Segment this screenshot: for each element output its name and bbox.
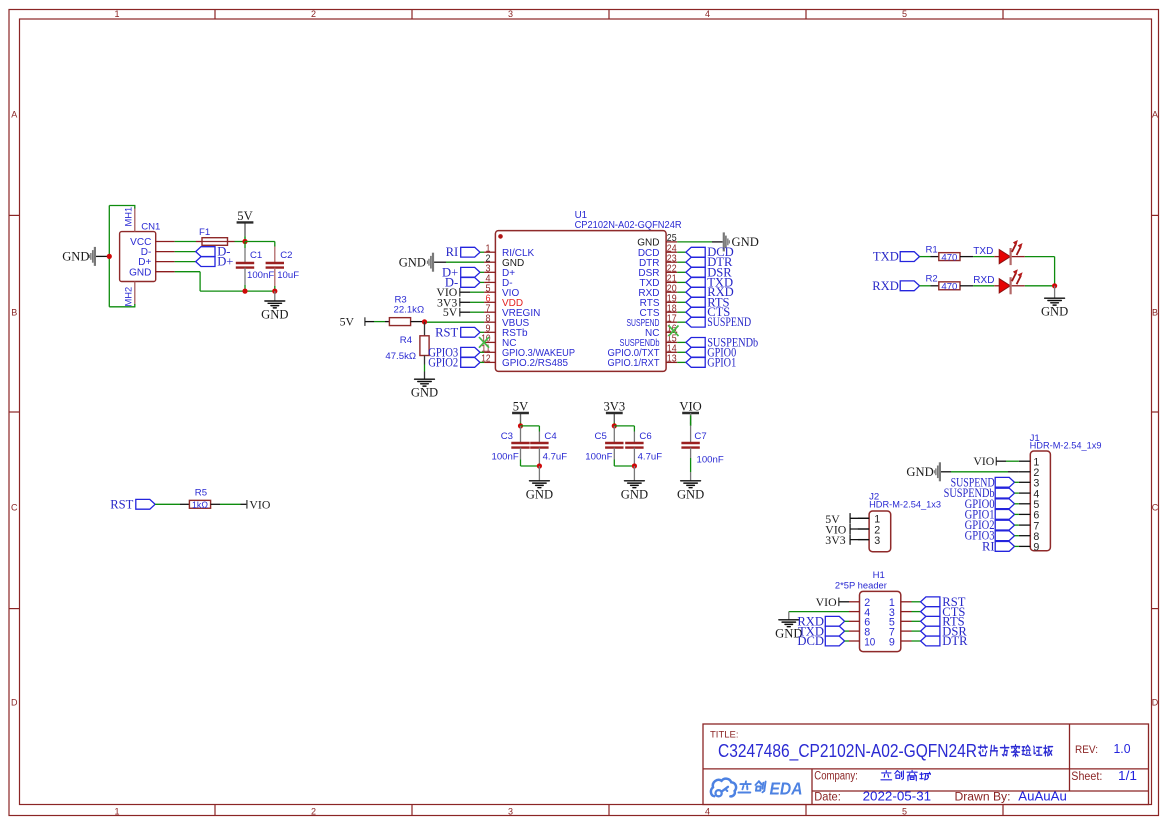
net label VIO at R5 <box>247 497 271 511</box>
svg-text:100nF: 100nF <box>491 451 518 462</box>
svg-text:3: 3 <box>508 9 513 19</box>
net flag TXD at H1 <box>798 624 849 638</box>
net flag DCD <box>677 245 734 259</box>
svg-text:REV:: REV: <box>1075 744 1098 756</box>
logo LCEDA <box>711 779 736 797</box>
svg-text:4: 4 <box>705 9 710 19</box>
svg-text:RST: RST <box>435 325 458 339</box>
net flag RXD at H1 <box>797 615 849 629</box>
power VIO at C7 <box>679 399 701 426</box>
junction LED GND <box>1052 283 1057 288</box>
svg-text:5: 5 <box>902 9 907 19</box>
net flag GPIO1 at J1 <box>965 507 1019 521</box>
svg-text:GPIO2: GPIO2 <box>428 355 458 369</box>
svg-text:MH2: MH2 <box>124 287 134 307</box>
junction C2 bottom <box>272 289 277 294</box>
wire C7 to GND <box>690 448 692 481</box>
wire LEDs to GND <box>1025 257 1055 286</box>
net flag RST at R5 <box>110 497 155 511</box>
net label VIO at J2 <box>825 523 869 537</box>
junction VBUS divider <box>422 319 427 324</box>
svg-text:HDR-M-2.54_1x9: HDR-M-2.54_1x9 <box>1030 441 1102 452</box>
wire VIO to C7 <box>690 413 692 443</box>
wire R3 to junction and pin8 <box>411 321 485 324</box>
svg-text:10: 10 <box>864 636 875 648</box>
power 3V3 at C5 <box>603 399 625 426</box>
svg-text:100nF: 100nF <box>585 451 612 462</box>
svg-text:Drawn By:: Drawn By: <box>955 791 1011 803</box>
svg-text:SUSPEND: SUSPEND <box>707 315 751 329</box>
net flag TXD <box>873 250 920 264</box>
svg-text:AuAuAu: AuAuAu <box>1018 789 1067 804</box>
power 5V at CN1 <box>237 209 254 242</box>
wire VCC to fuse <box>156 241 202 243</box>
net flag RST chip <box>435 325 484 339</box>
pin MH2 <box>124 282 135 307</box>
svg-text:3: 3 <box>508 807 513 817</box>
wire GND to loop <box>96 255 109 257</box>
svg-text:C1: C1 <box>250 250 262 261</box>
resistor R4 47.5k <box>385 335 429 362</box>
capacitor C5 100nF <box>585 431 623 462</box>
svg-text:C4: C4 <box>544 431 557 442</box>
svg-text:10uF: 10uF <box>277 270 299 281</box>
REV cell <box>1075 741 1131 756</box>
net flag SUSPENDb at J1 <box>944 486 1019 500</box>
svg-text:5V: 5V <box>237 209 252 223</box>
svg-text:GPIO.2/RS485: GPIO.2/RS485 <box>502 358 568 369</box>
svg-text:9: 9 <box>889 636 895 648</box>
svg-text:R4: R4 <box>400 335 413 346</box>
net flag D+ chip <box>442 265 484 279</box>
svg-text:RXD: RXD <box>872 279 899 293</box>
svg-text:GND: GND <box>1041 305 1068 319</box>
wire RST to R5 <box>155 503 189 505</box>
svg-text:GND: GND <box>261 308 288 322</box>
ground GND below LEDs <box>1041 286 1068 319</box>
svg-text:F1: F1 <box>199 227 210 238</box>
net flag GPIO2 at J1 <box>965 518 1019 532</box>
resistor R2 470 <box>926 274 961 293</box>
junction C4 bottom <box>537 463 542 468</box>
net flag GPIO3 chip <box>428 345 484 359</box>
net flag D- chip <box>445 275 484 289</box>
capacitor C6 4.7uF <box>625 431 662 462</box>
connector J1 HDR-M-2.54_1x9 <box>1019 433 1102 554</box>
svg-text:R5: R5 <box>195 487 207 498</box>
resistor R5 1k <box>189 487 210 510</box>
wire fuse to 5V rail <box>228 241 246 243</box>
svg-text:B: B <box>11 308 17 318</box>
ground GND below C7 <box>677 481 704 502</box>
ground GND at pin 25 <box>724 232 759 251</box>
capacitor C1 100nF <box>236 250 275 281</box>
wire C3 C4 bottoms <box>521 448 540 466</box>
LED RXD <box>994 269 1025 294</box>
svg-text:GND: GND <box>621 487 648 501</box>
net flag RTS at H1 right <box>912 615 965 629</box>
wire pin2 GND <box>434 261 484 263</box>
svg-text:C3247486_CP2102N-A02-GQFN24R: C3247486_CP2102N-A02-GQFN24R <box>718 741 977 762</box>
wire C5 C6 bottoms <box>614 448 634 466</box>
svg-text:GND: GND <box>732 235 759 249</box>
svg-text:100nF: 100nF <box>247 270 274 281</box>
net flag CTS <box>677 305 730 319</box>
ground GND below C6 <box>621 466 648 501</box>
svg-text:VIO: VIO <box>249 497 270 511</box>
wire C1 C2 bottoms to GND <box>156 268 275 292</box>
fuse F1 <box>199 227 228 245</box>
svg-text:TITLE:: TITLE: <box>710 730 739 741</box>
junction 3V3 caps <box>612 423 617 428</box>
wire mounting-hole ground loop <box>109 206 135 307</box>
svg-text:470: 470 <box>941 252 957 263</box>
svg-text:C7: C7 <box>694 431 706 442</box>
svg-text:470: 470 <box>941 282 957 293</box>
svg-text:D+: D+ <box>217 255 233 269</box>
svg-text:A: A <box>11 110 17 120</box>
svg-text:RI: RI <box>982 539 995 553</box>
net label VIO at J1 <box>973 454 996 468</box>
capacitor C7 100nF <box>681 431 723 465</box>
svg-text:GND: GND <box>411 386 438 400</box>
wire 3V3 to C5 C6 <box>614 426 634 443</box>
net label 3V3 at J2 <box>825 533 869 547</box>
wire D+ to flag <box>156 261 196 263</box>
svg-text:HDR-M-2.54_1x3: HDR-M-2.54_1x3 <box>869 499 941 510</box>
svg-text:13: 13 <box>667 353 677 365</box>
svg-text:GND: GND <box>62 250 89 264</box>
ground GND at J1 pin2 <box>906 462 939 481</box>
ground GND below R4 <box>411 379 438 400</box>
wire flag to R1 <box>920 256 939 258</box>
svg-text:C2: C2 <box>280 250 292 261</box>
svg-text:4.7uF: 4.7uF <box>638 451 663 462</box>
net flag DTR at H1 right <box>912 634 969 648</box>
svg-text:VIO: VIO <box>816 595 837 609</box>
title text chinese <box>978 745 1052 757</box>
svg-text:1.0: 1.0 <box>1114 741 1131 756</box>
svg-text:C3: C3 <box>501 431 513 442</box>
wire pin25 to GND <box>677 241 723 243</box>
net flag DSR at H1 right <box>912 624 968 638</box>
svg-text:22.1kΩ: 22.1kΩ <box>394 305 425 316</box>
op-amp U1 CP2102N-A02-GQFN24R <box>481 210 681 372</box>
svg-text:B: B <box>1152 308 1158 318</box>
svg-text:3V3: 3V3 <box>603 399 625 413</box>
date row <box>814 789 1067 804</box>
wire flag to R2 <box>920 285 939 287</box>
svg-text:2: 2 <box>311 9 316 19</box>
wire 5V rail to C2 top <box>245 242 275 264</box>
wire R4 to GND <box>424 356 426 380</box>
net flag SUSPEND at J1 <box>951 475 1019 489</box>
sheet cell <box>1071 768 1137 783</box>
net flag CTS at H1 right <box>912 605 966 619</box>
wire VIO to H1 pin2 <box>839 601 849 603</box>
wire R1 to LED <box>960 246 994 257</box>
svg-text:GPIO1: GPIO1 <box>707 355 736 369</box>
power 5V at C3 <box>512 399 529 426</box>
net flag GPIO0 <box>677 345 736 359</box>
logo text lichuang EDA <box>738 781 765 792</box>
svg-text:1kΩ: 1kΩ <box>192 500 208 510</box>
net label VIO at H1 <box>816 595 839 609</box>
svg-text:Sheet:: Sheet: <box>1071 771 1102 783</box>
svg-text:GND: GND <box>129 267 151 278</box>
svg-text:1: 1 <box>114 807 119 817</box>
net flag GPIO1 <box>677 355 736 369</box>
junction 5V caps <box>518 423 523 428</box>
net flag D- <box>196 245 231 259</box>
svg-text:5: 5 <box>902 807 907 817</box>
svg-text:D: D <box>1152 698 1159 708</box>
svg-text:DTR: DTR <box>942 634 968 648</box>
LED TXD <box>994 240 1025 265</box>
connector J2 HDR-M-2.54_1x3 <box>858 492 941 552</box>
net flag RXD <box>872 279 919 293</box>
wire R5 to VIO <box>211 503 247 505</box>
svg-text:5V: 5V <box>513 399 528 413</box>
capacitor C3 100nF <box>491 431 529 462</box>
wire D- to flag <box>156 251 196 253</box>
ground GND below C2 <box>261 291 288 321</box>
svg-text:Company:: Company: <box>814 771 858 783</box>
svg-text:C5: C5 <box>595 431 607 442</box>
svg-text:C: C <box>1152 503 1159 513</box>
svg-text:1/1: 1/1 <box>1118 768 1137 783</box>
resistor R3 22.1k <box>389 295 424 326</box>
svg-text:9: 9 <box>1033 542 1039 554</box>
svg-text:1: 1 <box>114 9 119 19</box>
svg-text:4.7uF: 4.7uF <box>543 451 568 462</box>
net flag SUSPENDb <box>677 335 758 349</box>
junction on loop <box>107 254 112 259</box>
title block <box>703 724 1149 805</box>
svg-text:47.5kΩ: 47.5kΩ <box>385 351 416 362</box>
svg-text:R2: R2 <box>926 274 938 285</box>
svg-text:TXD: TXD <box>973 246 993 257</box>
wire 5V to C3 C4 <box>521 426 540 443</box>
net flag RTS <box>677 295 729 309</box>
svg-text:GND: GND <box>399 255 426 269</box>
wire 5V to R3 <box>365 321 390 323</box>
net flag D+ <box>196 255 234 269</box>
net flag RI <box>446 245 484 259</box>
capacitor C2 10uF <box>266 250 300 281</box>
wire GND to J1 pin2 <box>941 471 1019 473</box>
svg-text:Date:: Date: <box>814 791 841 803</box>
pin MH1 <box>124 207 135 232</box>
connector CN1 USB <box>120 222 161 282</box>
svg-text:EDA: EDA <box>770 779 803 799</box>
resistor R1 470 <box>926 244 961 263</box>
no-connect cross pin 16 <box>669 326 679 337</box>
capacitor C4 4.7uF <box>530 431 567 462</box>
svg-text:RXD: RXD <box>973 275 994 286</box>
wire 5V rail down to C1 <box>244 242 246 264</box>
junction C6 bottom <box>632 463 637 468</box>
net flag DCD at H1 <box>797 634 849 648</box>
net label VIO pin5 <box>436 285 484 299</box>
net flag TXD <box>677 275 733 289</box>
net label 5V pin7 <box>443 305 484 319</box>
company row <box>814 771 858 783</box>
svg-text:3V3: 3V3 <box>825 533 845 547</box>
net flag GPIO3 at J1 <box>965 529 1019 543</box>
svg-text:2*5P header: 2*5P header <box>835 580 888 591</box>
svg-text:2022-05-31: 2022-05-31 <box>863 789 932 804</box>
svg-text:3: 3 <box>874 535 880 547</box>
svg-text:C6: C6 <box>639 431 651 442</box>
svg-text:D: D <box>11 698 18 708</box>
junction C1 bottom <box>242 289 247 294</box>
net flag DTR <box>677 255 733 269</box>
wire R2 to LED <box>960 275 994 286</box>
ground GND at CN1 <box>62 247 95 266</box>
ground GND below C4 <box>526 466 553 501</box>
junction 5V rail <box>242 239 247 244</box>
svg-text:4: 4 <box>705 807 710 817</box>
svg-text:5V: 5V <box>340 314 355 328</box>
svg-text:GND: GND <box>526 487 553 501</box>
svg-text:GND: GND <box>906 465 933 479</box>
svg-text:CN1: CN1 <box>141 222 160 233</box>
wire GND to H1 pin4 <box>789 612 849 620</box>
net flag SUSPEND <box>677 315 751 329</box>
svg-text:C: C <box>11 503 18 513</box>
net flag RXD <box>677 285 734 299</box>
svg-text:100nF: 100nF <box>697 454 724 465</box>
svg-text:2: 2 <box>311 807 316 817</box>
svg-text:GND: GND <box>677 487 704 501</box>
svg-text:R1: R1 <box>926 244 938 255</box>
svg-text:VIO: VIO <box>973 454 994 468</box>
svg-text:CP2102N-A02-GQFN24R: CP2102N-A02-GQFN24R <box>575 220 682 231</box>
svg-text:A: A <box>1152 110 1158 120</box>
net label 3V3 pin6 <box>437 295 484 309</box>
net label 5V at J2 <box>825 512 869 526</box>
net flag RI at J1 <box>982 539 1019 553</box>
wire junction to R4 <box>424 322 426 336</box>
svg-text:DCD: DCD <box>797 634 824 648</box>
net label 5V at R3 <box>340 314 365 328</box>
wire VIO to J1 pin1 <box>996 460 1019 462</box>
svg-text:MH1: MH1 <box>124 207 134 227</box>
svg-text:5V: 5V <box>443 305 458 319</box>
connector H1 2*5P header <box>835 570 912 651</box>
net flag DSR <box>677 265 732 279</box>
svg-text:GPIO.1/RXT: GPIO.1/RXT <box>608 358 660 369</box>
svg-text:TXD: TXD <box>873 250 899 264</box>
no-connect cross pin 10 <box>479 337 489 348</box>
ground GND at H1 <box>775 620 802 641</box>
ground GND at pin 2 <box>399 253 433 272</box>
net flag GPIO0 at J1 <box>965 497 1019 511</box>
svg-text:RST: RST <box>110 497 133 511</box>
svg-text:RI: RI <box>446 245 459 259</box>
net flag RST at H1 right <box>912 595 966 609</box>
net flag GPIO2 chip <box>428 355 484 369</box>
svg-text:VIO: VIO <box>679 399 701 413</box>
